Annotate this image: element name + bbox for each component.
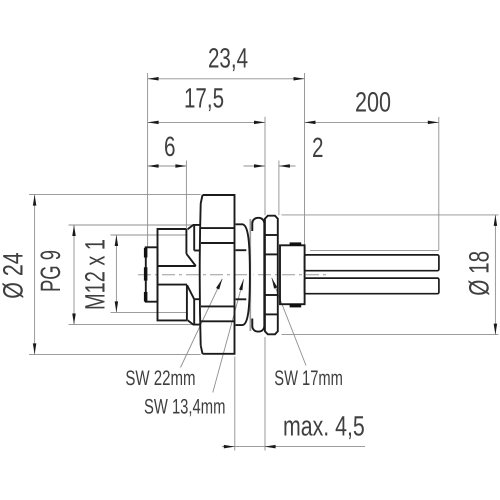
svg-text:Ø 24: Ø 24 [0,252,29,299]
svg-text:23,4: 23,4 [208,42,248,73]
svg-text:SW 17mm: SW 17mm [274,367,343,390]
svg-text:17,5: 17,5 [184,83,224,114]
svg-text:PG 9: PG 9 [35,250,66,292]
svg-text:max. 4,5: max. 4,5 [283,411,365,442]
svg-text:SW 13,4mm: SW 13,4mm [144,395,225,418]
svg-text:2: 2 [312,132,324,163]
svg-text:6: 6 [164,131,176,162]
svg-text:SW 22mm: SW 22mm [125,367,195,390]
svg-text:Ø 18: Ø 18 [464,251,495,296]
svg-text:M12 x 1: M12 x 1 [80,239,111,310]
svg-text:200: 200 [355,86,391,117]
